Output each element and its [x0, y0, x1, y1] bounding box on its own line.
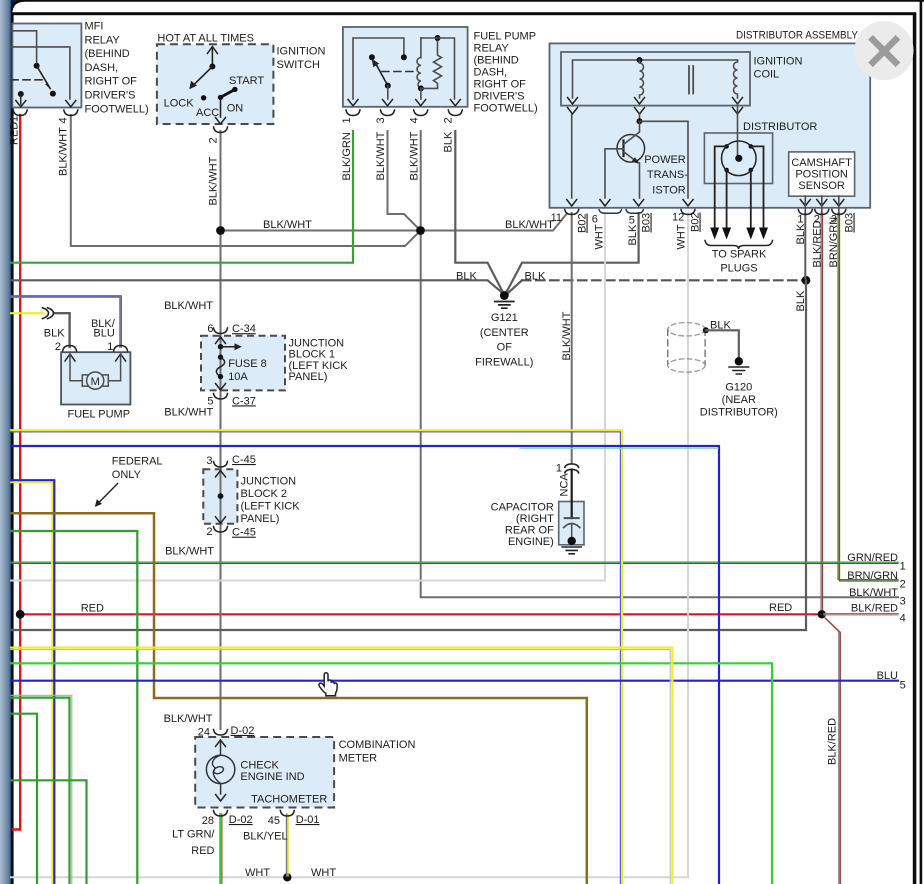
svg-text:3: 3	[206, 455, 212, 467]
node: BLK/WHT center junction dot	[416, 226, 425, 235]
wire BLK/GRN fuel pump relay pin 1 to left edge	[11, 131, 353, 263]
wire BLK fuel pump relay pin 2 to ground G121	[455, 131, 503, 293]
svg-text:BLK: BLK	[627, 224, 639, 245]
capacitor lead to ground dot	[571, 524, 573, 541]
svg-text:PANEL): PANEL)	[289, 371, 328, 383]
svg-text:ACC: ACC	[196, 107, 219, 119]
svg-text:COMBINATION: COMBINATION	[339, 739, 416, 751]
diagram frame: inner top border	[11, 12, 916, 15]
capacitor plates	[565, 517, 579, 519]
svg-text:BLK: BLK	[710, 320, 731, 332]
svg-text:45: 45	[268, 815, 280, 827]
fuel pump relay fixed contact dot	[401, 54, 407, 60]
node: BLK/RED junction dot	[818, 610, 826, 618]
svg-text:RED: RED	[191, 845, 214, 857]
wire pin 11 feed inside assembly	[571, 114, 573, 198]
junction block 1 tap dot with arrow right	[218, 344, 223, 349]
fuel pump relay arm contact dot	[385, 83, 391, 89]
wire YEL horizontal y=428 turning down at x=621	[11, 430, 622, 884]
camshaft position sensor box	[789, 152, 855, 196]
wire WHT distributor pin 6 down then left to edge	[11, 213, 605, 581]
window chrome: dark corner behind rounded page corner	[9, 0, 21, 16]
capacitor ground symbol	[562, 547, 581, 554]
svg-text:WHT: WHT	[594, 224, 606, 249]
camshaft position sensor exit arrows	[800, 200, 810, 207]
svg-text:1: 1	[556, 463, 562, 475]
svg-text:BLK/YEL: BLK/YEL	[243, 831, 288, 843]
svg-text:(LEFT KICK: (LEFT KICK	[241, 501, 301, 513]
wire LT GRN/RED from combination meter pin 28 to bottom	[219, 814, 221, 884]
connector C-34 half-circle above junction block 1	[214, 328, 228, 334]
svg-text:M: M	[91, 376, 100, 388]
wire BLK/WHT fuel pump relay pin 3 jog to junction	[388, 131, 420, 230]
svg-text:6: 6	[207, 323, 213, 335]
svg-text:JUNCTION: JUNCTION	[241, 476, 297, 488]
svg-text:C-37: C-37	[232, 395, 256, 407]
ignition switch ON contact dot	[218, 95, 223, 100]
svg-text:REAR OF: REAR OF	[505, 525, 554, 537]
ignition coil primary tap junction dot	[637, 57, 643, 63]
svg-text:2: 2	[208, 137, 220, 143]
diagram frame: left border	[11, 13, 13, 884]
ignition switch arm to LOCK with arrowhead	[192, 67, 212, 87]
svg-text:BLK/WHT: BLK/WHT	[164, 300, 213, 312]
MFI relay mechanical dashed link	[11, 79, 44, 81]
wire BLK/BLU pair from left edge to fuel pump pin 1	[11, 296, 121, 347]
svg-text:B02: B02	[690, 212, 702, 232]
svg-text:FUSE 8: FUSE 8	[228, 358, 267, 370]
svg-text:RELAY: RELAY	[474, 43, 510, 55]
wire BLU corner at left x=54	[11, 480, 54, 884]
wire GRN/RED across to right edge (label 1)	[11, 561, 898, 563]
G120 ground symbol	[735, 357, 743, 365]
node: WHT/tachometer junction dot at bottom	[283, 873, 291, 881]
power transistor base bar	[622, 141, 624, 157]
svg-text:BLK/WHT: BLK/WHT	[375, 131, 387, 180]
wire GRN corner at x=37	[11, 714, 37, 884]
svg-text:FUEL PUMP: FUEL PUMP	[68, 408, 131, 420]
svg-text:DISTRIBUTOR ASSEMBLY: DISTRIBUTOR ASSEMBLY	[736, 30, 859, 42]
svg-text:BLK: BLK	[795, 290, 807, 311]
next page partial frame bar at far right	[920, 1, 923, 884]
svg-text:NCA: NCA	[559, 473, 571, 497]
svg-text:BLK/WHT: BLK/WHT	[561, 311, 573, 360]
wire BLK/WHT ignition switch feed down through junction blocks to combination meter	[220, 131, 222, 729]
svg-text:3: 3	[375, 117, 387, 123]
svg-text:DRIVER'S: DRIVER'S	[474, 91, 525, 103]
svg-text:PLUGS: PLUGS	[720, 263, 757, 275]
svg-text:RIGHT OF: RIGHT OF	[474, 79, 527, 91]
svg-text:C-45: C-45	[232, 527, 256, 539]
junction block 2 entry arrow	[216, 471, 226, 478]
wire BLK/WHT fuel pump relay pin 4 down then right to edge (label 3)	[421, 131, 898, 597]
ignition switch box (dashed)	[157, 44, 274, 124]
wire GRN thin companion under blue	[520, 447, 718, 449]
wire BLK/RED from junction right to edge (label 4)	[824, 613, 898, 615]
svg-text:1: 1	[797, 213, 803, 225]
svg-text:ENGINE): ENGINE)	[508, 536, 554, 548]
svg-text:BLK: BLK	[44, 327, 65, 339]
wire BLU across to right edge (label 5)	[11, 680, 898, 682]
svg-text:12: 12	[672, 212, 684, 224]
svg-text:C-34: C-34	[232, 323, 256, 335]
connector C-45 half-circle above junction block 2	[214, 462, 228, 468]
svg-text:DISTRIBUTOR: DISTRIBUTOR	[743, 121, 817, 133]
svg-text:DRIVER'S: DRIVER'S	[85, 90, 136, 102]
svg-text:BLK/RED: BLK/RED	[812, 220, 824, 267]
spark plug lead 1	[715, 146, 727, 228]
wire RED from MFI relay pin 1 down left side	[13, 115, 20, 830]
svg-text:WHT: WHT	[311, 867, 336, 879]
junction block 1 entry arrow	[216, 337, 226, 344]
MFI relay contact dot	[50, 91, 56, 97]
svg-text:BLK/WHT: BLK/WHT	[849, 587, 898, 599]
combination meter entry arrow	[216, 740, 226, 747]
MFI relay switch arm with arrowhead	[37, 66, 51, 89]
svg-text:(CENTER: (CENTER	[480, 327, 529, 339]
svg-text:BLOCK 1: BLOCK 1	[289, 349, 335, 361]
MFI relay pin 1 contact dot and exit arrow	[18, 91, 24, 97]
svg-text:OF: OF	[497, 342, 513, 354]
svg-text:RED: RED	[9, 122, 21, 145]
junction block 2 box (dashed)	[203, 469, 237, 524]
combination meter box (dashed)	[195, 737, 334, 808]
svg-text:BLK/WHT: BLK/WHT	[165, 546, 214, 558]
power transistor Q1 circle	[617, 135, 645, 163]
wire BLK camshaft sensor pin 1 down to dashed junction	[804, 213, 806, 278]
wire BLK dashed shield run to G120 area junction	[508, 280, 523, 293]
svg-text:4: 4	[409, 117, 421, 123]
svg-text:B03: B03	[641, 213, 653, 233]
svg-text:ENGINE IND: ENGINE IND	[240, 771, 304, 783]
inline connector on yellow/BLK wire	[43, 308, 49, 319]
svg-text:3: 3	[900, 596, 906, 608]
node: RED junction dot on left red wire	[16, 610, 25, 619]
svg-text:BLK: BLK	[443, 131, 455, 152]
wire YEL horizontal y=648 turning down at x=672	[11, 648, 672, 884]
svg-text:TACHOMETER: TACHOMETER	[251, 794, 327, 806]
connector half-circles under MFI relay pins 1 and 4	[13, 110, 27, 116]
svg-text:FEDERAL: FEDERAL	[112, 456, 163, 468]
svg-text:1: 1	[107, 341, 113, 353]
ignition switch pivot dot	[209, 64, 215, 70]
svg-text:BLK/WHT: BLK/WHT	[409, 131, 421, 180]
brace under spark plug arrows	[705, 241, 773, 250]
spark plug lead 2	[726, 170, 728, 228]
fuel pump relay resistor top junction dot	[435, 35, 441, 41]
wire BLK/WHT from MFI relay pin 4 to center junction	[71, 115, 420, 246]
svg-text:BLK/WHT: BLK/WHT	[58, 127, 70, 176]
svg-text:D-02: D-02	[229, 814, 253, 826]
svg-text:2: 2	[55, 341, 61, 353]
distributor rotor circle	[722, 141, 757, 176]
junction block 2 exit arrow	[216, 517, 226, 524]
spark plug lead 3	[750, 170, 752, 228]
wire WHT thin companion above green y=695	[11, 695, 72, 884]
wire WHT thin companion beside yellow	[11, 650, 670, 884]
camshaft position sensor leads to assembly edge	[805, 196, 839, 213]
fuel pump relay exit arrows pins 1,3,4,2	[348, 100, 358, 106]
svg-text:C-45: C-45	[232, 454, 256, 466]
svg-text:IGNITION: IGNITION	[277, 46, 326, 58]
spark plug lead 4	[751, 146, 764, 228]
wire primary to transistor collector and pin 12	[639, 114, 641, 121]
ignition coil exit arrows at box bottom	[568, 98, 578, 105]
wire NCA lead into capacitor	[571, 470, 573, 519]
fuel pump internal wiring	[70, 354, 82, 381]
spark plug arrowheads	[710, 228, 719, 240]
svg-text:POSITION: POSITION	[795, 169, 848, 181]
svg-text:TRANS-: TRANS-	[647, 169, 688, 181]
fuel pump relay coil top bus and pin 2 drop	[421, 38, 455, 99]
svg-text:G120: G120	[725, 381, 752, 393]
svg-text:ON: ON	[227, 103, 244, 115]
wire BLK distributor pin 5 to ground G121	[506, 213, 638, 293]
svg-text:1: 1	[341, 117, 353, 123]
svg-text:BLK/WHT: BLK/WHT	[505, 219, 554, 231]
distributor rotor center dot	[735, 155, 742, 162]
wire BLK from inline connector to fuel pump pin 2	[54, 313, 70, 347]
svg-text:POWER: POWER	[644, 154, 686, 166]
wire coil secondary into distributor rotor	[737, 104, 739, 158]
diagram frame: right border	[913, 13, 917, 884]
G120 tap dot on cylinder	[703, 327, 709, 333]
wire GRN corner at x=137	[11, 531, 137, 884]
ignition coil primary winding	[640, 60, 644, 98]
svg-text:IGNITION: IGNITION	[754, 56, 803, 68]
capacitor box	[559, 502, 584, 545]
connector half-circle under pin 12	[681, 210, 695, 215]
wire YEL corner at left x=52	[11, 482, 52, 884]
node: BLK/WHT junction dot at ignition feed	[216, 226, 225, 235]
ignition coil secondary winding	[734, 60, 738, 98]
svg-text:LOCK: LOCK	[164, 97, 195, 109]
svg-text:D-02: D-02	[231, 725, 255, 737]
fuel pump motor M circle	[87, 372, 104, 389]
fuel pump relay pin 4 drop	[420, 88, 422, 99]
svg-text:2: 2	[206, 526, 212, 538]
svg-text:TO SPARK: TO SPARK	[712, 249, 767, 261]
wire BLK/RED from junction diagonal down to bottom edge	[825, 618, 839, 884]
svg-text:(NEAR: (NEAR	[722, 394, 756, 406]
svg-text:10A: 10A	[228, 371, 248, 383]
distributor assembly box	[550, 43, 871, 207]
svg-text:LT GRN/: LT GRN/	[172, 829, 215, 841]
fuel pump relay switch arm with arrowhead toward pivot	[375, 62, 388, 86]
MFI relay switch pivot dot	[34, 63, 40, 69]
chevrons below ignition coil box	[568, 108, 578, 115]
svg-text:(LEFT KICK: (LEFT KICK	[289, 360, 349, 372]
svg-text:BLK/WHT: BLK/WHT	[208, 156, 220, 205]
wire GRN corner at x=69.5	[11, 698, 70, 884]
svg-text:B03: B03	[844, 213, 856, 233]
svg-text:FIREWALL): FIREWALL)	[475, 356, 533, 368]
svg-text:4: 4	[900, 613, 906, 625]
svg-text:BLK/GRN: BLK/GRN	[341, 132, 353, 180]
svg-text:BRN/GRN: BRN/GRN	[847, 570, 898, 582]
svg-text:24: 24	[198, 727, 210, 739]
ignition coil inner box	[561, 52, 750, 106]
wire BLK/WHT horizontal bus at y=230	[221, 214, 567, 231]
svg-text:(BEHIND: (BEHIND	[85, 48, 130, 60]
svg-text:DISTRIBUTOR): DISTRIBUTOR)	[700, 406, 778, 418]
fuel pump relay contact feed from pin 1	[353, 38, 404, 99]
svg-text:FOOTWELL): FOOTWELL)	[474, 103, 538, 115]
capacitor connector pair on pin 11 wire	[565, 464, 579, 467]
svg-text:BLU: BLU	[93, 328, 114, 340]
svg-text:BLK: BLK	[525, 271, 546, 283]
svg-text:DASH,: DASH,	[85, 62, 119, 74]
wire BLK/WHT distributor pin 11 down to capacitor connector	[571, 213, 573, 463]
wire RED horizontal to BLK/RED junction	[20, 613, 820, 615]
svg-text:FOOTWELL): FOOTWELL)	[85, 103, 149, 115]
svg-text:BLK/WHT: BLK/WHT	[263, 219, 312, 231]
power transistor collector lead	[624, 121, 640, 144]
connector D-01 half-circle below meter pin 45	[280, 811, 294, 817]
svg-text:SWITCH: SWITCH	[277, 59, 320, 71]
svg-text:WHT: WHT	[245, 867, 270, 879]
wire BLU horizontal y=445 turning down at x=719	[11, 446, 719, 884]
svg-text:RIGHT OF: RIGHT OF	[85, 76, 138, 88]
ignition switch ACC contact dot	[201, 95, 206, 100]
distributor assembly bottom exit arrows pins 11,6,5,12	[567, 200, 577, 207]
ignition switch START contact dot	[232, 87, 237, 92]
svg-text:2: 2	[900, 578, 906, 590]
connector half-circle under ignition switch pin 2	[214, 127, 228, 133]
wire LT GRN bright horizontal turning down at x=772	[11, 663, 772, 884]
ignition coil top bus	[573, 60, 738, 98]
mouse hand cursor	[319, 673, 337, 696]
connector half-circles above fuel pump pins 2 and 1	[63, 346, 77, 352]
wire BRN left corner run down and across to x=587	[11, 513, 587, 884]
svg-text:(RIGHT: (RIGHT	[516, 513, 554, 525]
svg-text:START: START	[229, 75, 264, 87]
svg-text:JUNCTION: JUNCTION	[289, 338, 345, 350]
MFI relay internal wiring	[11, 31, 37, 63]
svg-text:BLU: BLU	[877, 670, 898, 682]
distributor sub-box	[704, 133, 772, 184]
svg-text:DASH,: DASH,	[474, 67, 508, 79]
connector C-37 half-circle below junction block 1	[214, 394, 228, 400]
svg-text:GRN/RED: GRN/RED	[847, 552, 898, 564]
fuel pump relay resistor	[421, 38, 442, 88]
svg-text:5: 5	[900, 680, 906, 692]
ignition switch output wire and exit arrow	[220, 97, 222, 117]
junction block 2 mid dot	[218, 493, 224, 499]
wire WHT distributor pin 12 down then left along bottom	[11, 213, 688, 877]
combination meter exit arrow	[216, 795, 226, 802]
svg-text:4: 4	[58, 117, 70, 123]
wire BLK from cylinder to G120 ground	[706, 330, 739, 357]
fuel pump relay pivot contact dot	[369, 54, 375, 60]
svg-text:MFI: MFI	[85, 21, 104, 33]
svg-text:HOT AT ALL TIMES: HOT AT ALL TIMES	[157, 32, 254, 44]
svg-text:5: 5	[207, 395, 213, 407]
wire BLK/RED camshaft sensor pin 2 down to red junction	[820, 213, 822, 613]
svg-text:ONLY: ONLY	[112, 469, 142, 481]
svg-text:BLK/WHT: BLK/WHT	[164, 407, 213, 419]
svg-text:RED: RED	[81, 603, 104, 615]
fuel pump relay coil bottom junction dot	[418, 85, 424, 91]
svg-text:CAMSHAFT: CAMSHAFT	[791, 157, 852, 169]
wire GRN corner at x=86.5	[11, 780, 87, 884]
power transistor base lead to pin 6	[605, 149, 624, 198]
fuel pump relay arm to pin 3	[387, 86, 389, 99]
wire BRN/GRN camshaft sensor pin 3 right to edge (label 2)	[838, 213, 898, 580]
svg-text:D-01: D-01	[296, 814, 320, 826]
wire BLK/YEL from combination meter pin 45 to WHT junction	[286, 814, 288, 876]
svg-text:SENSOR: SENSOR	[798, 180, 845, 192]
connector half-circles under fuel pump relay pins	[346, 110, 360, 116]
svg-text:5: 5	[629, 215, 635, 227]
ignition switch rotor arrow up	[211, 48, 213, 67]
connector D-02 half-circle below meter pin 28	[214, 811, 228, 817]
svg-text:RELAY: RELAY	[85, 34, 121, 46]
svg-text:1: 1	[900, 561, 906, 573]
fuel pump box	[61, 352, 130, 404]
distributor cap contact dots	[724, 144, 729, 149]
G121 ground symbol	[500, 291, 509, 300]
svg-text:1: 1	[9, 116, 21, 122]
svg-text:6: 6	[592, 213, 598, 225]
connector half-circles under camshaft sensor pins 1,2,3	[798, 210, 812, 215]
wire BLU thin companion under yellow, down at x=620.4	[11, 432, 620, 884]
connector D-02 half-circle above combination meter	[214, 730, 228, 736]
svg-text:FUEL PUMP: FUEL PUMP	[474, 31, 537, 43]
ignition coil core bars	[689, 66, 693, 94]
wire BLK from dashed junction down and left to edge	[11, 280, 806, 630]
svg-text:METER: METER	[339, 752, 378, 764]
svg-text:WHT: WHT	[676, 224, 688, 249]
svg-text:B02: B02	[577, 213, 589, 233]
MFI relay K1 box (clipped at left frame)	[12, 24, 81, 108]
check engine bulb	[220, 740, 222, 755]
junction block 1 exit arrow	[216, 384, 226, 391]
svg-text:(BEHIND: (BEHIND	[474, 55, 519, 67]
connector half-circle under pin 11 with branch to BLK/WHT bus	[565, 210, 579, 215]
ignition switch ON-START bridge bar	[221, 89, 235, 97]
FEDERAL ONLY callout arrow	[97, 484, 118, 506]
wire BLK from left edge to ground G121	[11, 280, 503, 293]
fuel pump relay coil	[420, 38, 422, 58]
svg-text:BLK/WHT: BLK/WHT	[164, 713, 213, 725]
power transistor emitter lead with arrowhead	[624, 152, 638, 162]
svg-text:BLK: BLK	[456, 271, 477, 283]
svg-text:G121: G121	[491, 312, 518, 324]
fuse F8 wavy element	[218, 354, 223, 359]
svg-text:BLK: BLK	[795, 223, 807, 244]
connector brackets under pins 6 and 5	[599, 210, 621, 213]
close button (X) top right	[855, 21, 914, 80]
svg-text:28: 28	[202, 815, 214, 827]
fuel pump relay dashed link	[382, 71, 418, 73]
MFI relay pin 4 exit arrow	[66, 101, 76, 107]
svg-text:BRN/GRN: BRN/GRN	[828, 217, 840, 268]
svg-text:COIL: COIL	[754, 69, 780, 81]
fuel pump motor brushes	[82, 375, 88, 386]
svg-text:PANEL): PANEL)	[241, 513, 280, 525]
svg-text:ISTOR: ISTOR	[652, 185, 685, 197]
svg-text:CAPACITOR: CAPACITOR	[491, 502, 554, 514]
svg-text:2: 2	[443, 117, 455, 123]
svg-text:BLK/RED: BLK/RED	[851, 603, 898, 615]
fuel pump entry arrows	[65, 354, 75, 361]
svg-text:RED: RED	[769, 602, 792, 614]
svg-text:BLK/RED: BLK/RED	[827, 718, 839, 765]
G120 shield cylinder (dashed)	[668, 323, 705, 336]
node: dashed BLK junction dot	[802, 276, 811, 285]
junction block 1 box (dashed)	[201, 336, 285, 391]
